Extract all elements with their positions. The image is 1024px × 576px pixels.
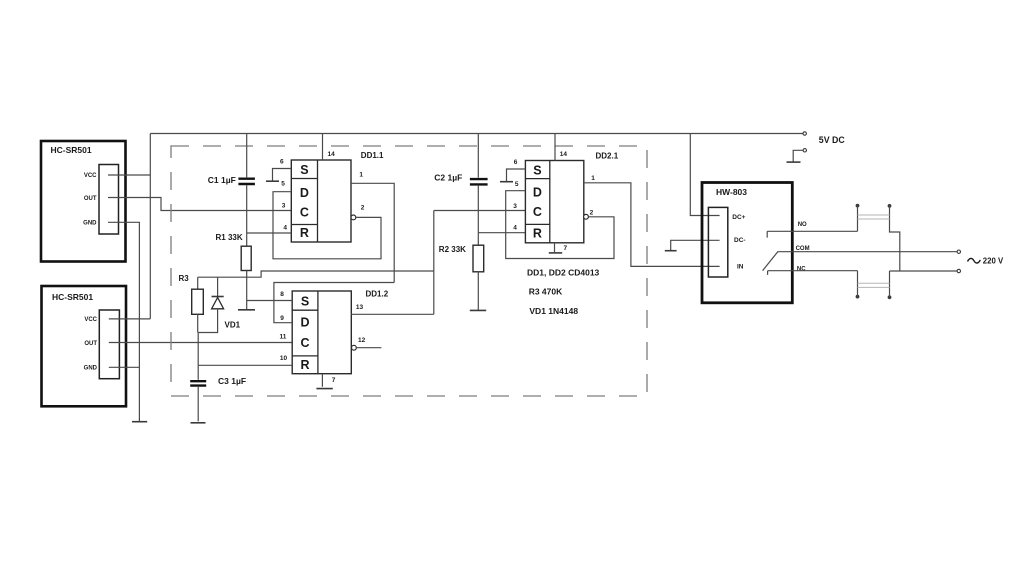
pin 11 DD1.2 [280, 333, 287, 340]
node 5V DC terminal [803, 132, 806, 135]
wire DD1.2 pin9 data from DD1.1 Q [274, 283, 394, 323]
svg-text:DD2.1: DD2.1 [596, 151, 619, 160]
svg-text:DD1, DD2 CD4013: DD1, DD2 CD4013 [527, 267, 600, 277]
wire loads to 220V terminal [890, 270, 958, 272]
svg-text:S: S [300, 163, 308, 177]
svg-text:5V DC: 5V DC [819, 135, 846, 145]
label DD1, DD2 CD4013 [527, 267, 600, 277]
svg-text:HW-803: HW-803 [716, 187, 747, 197]
svg-text:S: S [301, 294, 309, 308]
pin 1 DD1.1 [359, 172, 363, 179]
wire 5V to relay DC+ [690, 134, 719, 216]
svg-text:R3: R3 [179, 274, 190, 283]
pin 10 DD1.2 [280, 355, 288, 362]
svg-text:5: 5 [281, 181, 285, 188]
PIR sensor module 2 HC-SR501 [42, 286, 127, 406]
svg-text:7: 7 [332, 377, 336, 384]
label R3 470K [529, 287, 563, 297]
ground 0V terminal [787, 161, 801, 163]
label NC [797, 266, 806, 272]
wire DD2.1 pin7 [554, 243, 556, 252]
ground relay DC- [665, 250, 677, 252]
wire DD1.1 pin6 set hook [273, 169, 292, 182]
wire R2 bottom to ground [477, 272, 479, 310]
wire DD2.1 pin4 reset [478, 232, 525, 234]
load 1 lamp symbol [856, 204, 900, 271]
wire C2 to R2 [477, 186, 479, 246]
svg-text:4: 4 [513, 225, 517, 232]
svg-text:IN: IN [737, 264, 744, 271]
wire DD1.1 pin14 [322, 134, 324, 161]
svg-text:S: S [533, 164, 541, 178]
wire C1 top [246, 134, 248, 178]
svg-text:2: 2 [361, 205, 365, 212]
wire DD2.1 pin2 to pin5 feedback [506, 191, 614, 259]
node DD1.2 pin12 inverter bubble [352, 345, 357, 350]
svg-text:C3 1µF: C3 1µF [218, 376, 246, 386]
pin 1 DD2.1 [591, 175, 595, 182]
svg-text:6: 6 [280, 159, 284, 166]
wire R1 bottom to ground [246, 271, 248, 310]
wire PIR1 VCC to 5V [108, 174, 150, 176]
svg-text:R: R [300, 226, 309, 240]
ground R2 [470, 309, 486, 311]
capacitor C1 1uF [208, 175, 255, 185]
label NO [798, 222, 807, 228]
wire PIR1 OUT to DD1.1 pin3 [108, 198, 291, 211]
wire DD2.1 pin6 set hook [507, 169, 526, 182]
relay switch arm COM [763, 252, 793, 271]
resistor R3 [179, 274, 204, 333]
pin 2 DD1.1 [361, 205, 365, 212]
wire DD1.2 pin7 [321, 374, 323, 387]
wire C2 top [477, 134, 479, 178]
svg-text:14: 14 [560, 151, 568, 158]
node DD1.1 pin2 inverter bubble [351, 215, 356, 220]
svg-text:C: C [533, 205, 542, 219]
load 2 lamp symbol [856, 271, 892, 299]
svg-text:NC: NC [797, 266, 806, 272]
wire DD1.2 pin10 reset [198, 364, 292, 366]
svg-text:11: 11 [280, 333, 287, 340]
wire PIR2 VCC to 5V [109, 318, 151, 320]
pin 12 DD1.2 [358, 337, 366, 344]
svg-text:9: 9 [280, 315, 284, 322]
wire NO to load 1 [792, 230, 857, 232]
wire node X from R3 top to DD1.2 pin13 and DD2.1 pin3 [198, 211, 434, 315]
label DD1.1 [361, 151, 384, 160]
wire NC to load 2 [792, 270, 857, 272]
svg-text:DC-: DC- [734, 237, 746, 244]
ground DD2.1 pin7 [549, 252, 562, 254]
svg-text:DD1.1: DD1.1 [361, 151, 384, 160]
svg-text:7: 7 [564, 245, 568, 252]
svg-text:DC+: DC+ [732, 214, 745, 221]
svg-text:R: R [533, 227, 542, 241]
svg-text:DD1.2: DD1.2 [366, 289, 389, 298]
node 220V terminal bottom [957, 269, 960, 272]
svg-text:3: 3 [282, 202, 286, 209]
svg-text:D: D [300, 316, 309, 330]
svg-text:D: D [533, 185, 542, 199]
wire DD1.2 pin13 Q output [351, 313, 434, 315]
wire 0V terminal lead [793, 150, 803, 161]
pin 3 DD2.1 [513, 203, 517, 210]
resistor R1 33K [216, 233, 252, 271]
svg-text:HC-SR501: HC-SR501 [52, 292, 93, 302]
pin 8 DD1.2 [280, 291, 284, 298]
ground DD1.2 pin7 [316, 388, 332, 390]
node 220V terminal top [957, 250, 960, 253]
pin 6 DD1.1 [280, 159, 284, 166]
node 0V terminal [803, 149, 806, 152]
svg-text:VD1 1N4148: VD1 1N4148 [529, 306, 578, 316]
dashed boundary box [171, 146, 647, 396]
relay module HW-803 [702, 183, 792, 303]
label AC tilde [968, 258, 981, 263]
pin 14 DD1.1 [328, 151, 336, 158]
wire PIR2 GND [109, 366, 140, 368]
wire 5V supply rail [150, 133, 803, 135]
svg-text:3: 3 [513, 203, 517, 210]
svg-text:14: 14 [328, 151, 336, 158]
svg-text:220 V: 220 V [983, 257, 1004, 266]
wire DD2.1 pin3 clock [434, 210, 526, 212]
flip-flop DD1.1 [291, 160, 351, 242]
svg-text:OUT: OUT [84, 341, 97, 347]
pin 2 DD2.1 [590, 210, 594, 217]
ground C3 [191, 422, 206, 424]
svg-text:COM: COM [796, 246, 810, 252]
svg-text:D: D [300, 186, 309, 200]
pin 4 DD1.1 [283, 224, 287, 231]
node DD2.1 pin2 inverter bubble [584, 214, 589, 219]
svg-text:5: 5 [515, 181, 519, 188]
label VD1 1N4148 [529, 306, 578, 316]
svg-text:C2 1µF: C2 1µF [434, 172, 462, 182]
wire DD1.1 pin1 Q output [351, 183, 394, 282]
pin 14 DD2.1 [560, 151, 568, 158]
svg-text:C: C [300, 336, 309, 350]
svg-text:VCC: VCC [84, 317, 97, 323]
svg-text:13: 13 [356, 304, 364, 311]
wire COM to 220V terminal [792, 251, 957, 253]
wire DD1.2 pin8 set to ground node [247, 300, 293, 302]
svg-text:VCC: VCC [84, 173, 97, 179]
svg-text:1: 1 [591, 175, 595, 182]
svg-text:VD1: VD1 [225, 320, 241, 329]
svg-text:NO: NO [798, 222, 807, 228]
pin 4 DD2.1 [513, 225, 517, 232]
resistor R2 33K [439, 245, 484, 272]
pin 13 DD1.2 [356, 304, 364, 311]
svg-text:12: 12 [358, 337, 366, 344]
svg-text:GND: GND [83, 221, 97, 227]
wire DD2.1 pin14 [554, 134, 556, 161]
label DD1.2 [366, 289, 389, 298]
wire PIR2 OUT to DD1.2 pin11 [109, 342, 292, 344]
ground PIR modules [132, 421, 147, 423]
wire DD2.1 pin1 Q to relay IN [584, 183, 720, 267]
relay contact NC [768, 271, 793, 275]
pin 7 DD2.1 [564, 245, 568, 252]
PIR sensor module 1 HC-SR501 [41, 141, 126, 262]
wire relay DC- to ground [671, 240, 720, 250]
pin 5 DD1.1 [281, 181, 285, 188]
label 220 V [983, 257, 1004, 266]
ground R1 [238, 309, 255, 311]
pin 9 DD1.2 [280, 315, 284, 322]
wire C3 bottom to ground [197, 387, 199, 422]
flip-flop DD1.2 [292, 291, 351, 374]
svg-text:R1 33K: R1 33K [216, 233, 243, 242]
capacitor C3 1uF [190, 376, 246, 386]
svg-text:8: 8 [280, 291, 284, 298]
label COM [796, 246, 810, 252]
wire DD1.2 pin12 stub [356, 347, 381, 349]
ground DD1.1 pin5 stub [266, 180, 279, 182]
diode VD1 1N4148 [198, 277, 240, 332]
pin 5 DD2.1 [515, 181, 519, 188]
svg-text:OUT: OUT [84, 196, 97, 202]
svg-text:6: 6 [514, 159, 518, 166]
svg-text:R3 470K: R3 470K [529, 287, 563, 297]
svg-text:C: C [300, 206, 309, 220]
wire DD1.1 pin4 reset [247, 232, 292, 234]
pin 6 DD2.1 [514, 159, 518, 166]
svg-text:C1 1µF: C1 1µF [208, 175, 236, 185]
capacitor C2 1uF [434, 172, 487, 184]
label 5V DC [819, 135, 846, 145]
label DD2.1 [596, 151, 619, 160]
ground DD2.1 pin5 stub [500, 181, 513, 183]
svg-text:R: R [300, 358, 309, 372]
svg-text:R2 33K: R2 33K [439, 245, 466, 254]
svg-text:10: 10 [280, 355, 288, 362]
pin 7 DD1.2 [332, 377, 336, 384]
svg-text:GND: GND [84, 366, 98, 372]
relay contact NO [767, 231, 792, 237]
svg-text:HC-SR501: HC-SR501 [51, 145, 92, 155]
wire VCC vertical [149, 134, 151, 319]
flip-flop DD2.1 [525, 161, 583, 243]
wire DD1.1 pin2 to pin5 feedback [273, 192, 381, 259]
wire C1 to R1 [246, 185, 248, 246]
wire PIR1 GND [108, 222, 139, 421]
svg-text:2: 2 [590, 210, 594, 217]
wire R3 bottom to C3 and pin10 node [197, 333, 199, 380]
svg-text:4: 4 [283, 224, 287, 231]
pin 3 DD1.1 [282, 202, 286, 209]
svg-text:1: 1 [359, 172, 363, 179]
